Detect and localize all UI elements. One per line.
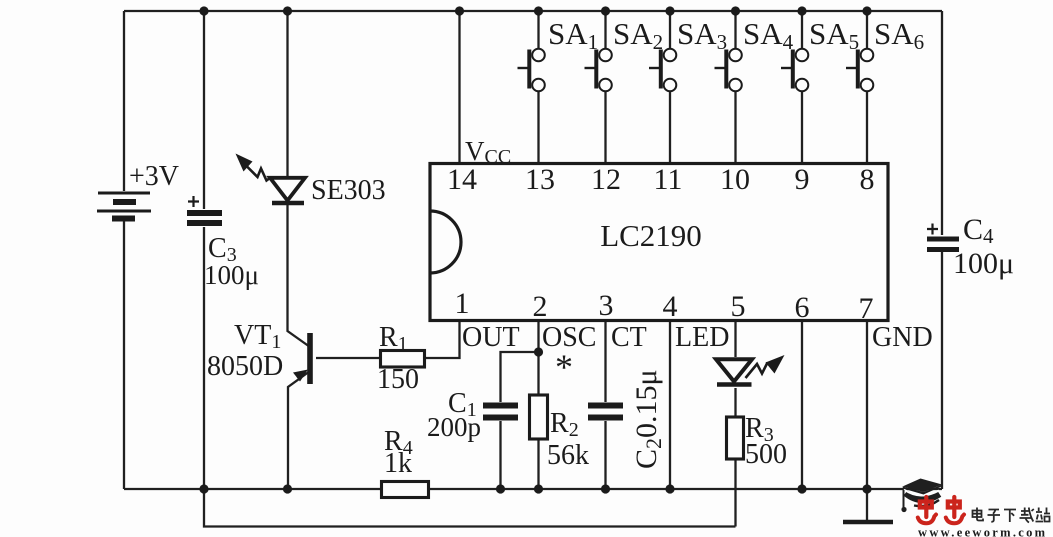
svg-text:10: 10 bbox=[720, 163, 750, 196]
svg-text:www.eeworm.com: www.eeworm.com bbox=[918, 526, 1047, 537]
svg-text:GND: GND bbox=[872, 322, 933, 353]
svg-text:LC2190: LC2190 bbox=[600, 218, 702, 253]
svg-text:150: 150 bbox=[377, 364, 419, 395]
svg-text:56k: 56k bbox=[547, 440, 589, 471]
svg-text:7: 7 bbox=[859, 292, 874, 325]
svg-text:3: 3 bbox=[599, 289, 614, 322]
svg-text:LED: LED bbox=[675, 322, 729, 353]
svg-text:9: 9 bbox=[795, 163, 810, 196]
svg-text:14: 14 bbox=[447, 163, 477, 196]
svg-text:*: * bbox=[555, 347, 573, 387]
svg-text:8: 8 bbox=[860, 163, 875, 196]
svg-text:+3V: +3V bbox=[129, 161, 179, 192]
svg-text:1: 1 bbox=[455, 287, 470, 320]
svg-text:200p: 200p bbox=[427, 412, 481, 442]
svg-text:OUT: OUT bbox=[462, 322, 520, 353]
svg-text:4: 4 bbox=[663, 290, 678, 323]
svg-text:500: 500 bbox=[745, 439, 787, 470]
svg-text:100μ: 100μ bbox=[953, 247, 1014, 280]
svg-text:C20.15μ: C20.15μ bbox=[630, 369, 666, 469]
svg-text:SE303: SE303 bbox=[311, 175, 386, 206]
svg-text:6: 6 bbox=[795, 291, 810, 324]
svg-text:8050D: 8050D bbox=[207, 351, 283, 382]
svg-text:12: 12 bbox=[591, 163, 621, 196]
svg-text:100μ: 100μ bbox=[204, 260, 259, 290]
svg-text:5: 5 bbox=[731, 290, 746, 323]
svg-text:2: 2 bbox=[533, 290, 548, 323]
svg-text:CT: CT bbox=[611, 322, 647, 353]
svg-text:11: 11 bbox=[654, 163, 683, 196]
svg-text:13: 13 bbox=[525, 163, 555, 196]
svg-text:1k: 1k bbox=[384, 448, 412, 479]
